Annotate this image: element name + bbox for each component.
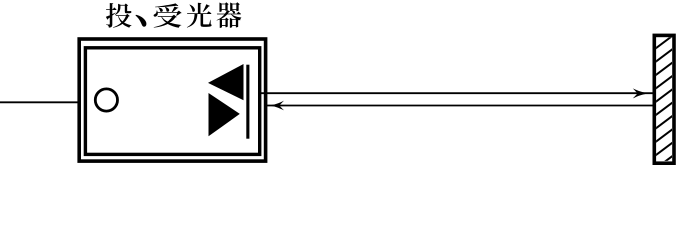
label text 投、受光器 xyxy=(106,2,241,28)
reflector hatching xyxy=(653,34,675,171)
wire: emitted beam line xyxy=(261,92,653,94)
arrowhead: returned beam, pointing left xyxy=(268,101,284,111)
wire: returned beam line xyxy=(267,105,653,107)
receiver triangle (points left) xyxy=(208,64,244,100)
text char 器 xyxy=(217,2,242,28)
indicator lamp circle xyxy=(95,89,117,111)
text char 受 xyxy=(154,3,182,27)
arrowhead: emitted beam, pointing right xyxy=(633,88,650,98)
text char 、 xyxy=(136,15,147,27)
lens bar xyxy=(246,65,249,139)
emitter triangle (points right) xyxy=(209,93,240,136)
sensor box U1 outer rectangle xyxy=(79,39,265,161)
sensor box U1 inner rectangle xyxy=(85,48,259,155)
wire: left lead line into sensor xyxy=(0,101,79,103)
text char 投 xyxy=(106,3,132,28)
reflector frame xyxy=(654,35,674,163)
text char 光 xyxy=(187,3,212,28)
